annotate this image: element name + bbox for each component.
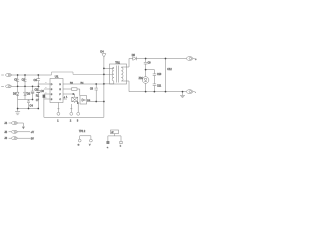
connector J3 output minus: [186, 90, 196, 94]
svg-text:S: S: [51, 89, 53, 91]
svg-text:C11: C11: [157, 86, 162, 88]
svg-text:F: F: [59, 94, 61, 96]
svg-text:S: S: [51, 94, 53, 96]
svg-text:1: 1: [66, 96, 68, 98]
diode D4 clamp: [100, 50, 106, 58]
node clamp dots: [103, 68, 105, 70]
wire primary ground rail: [18, 108, 39, 110]
node dc minus dots: [32, 99, 34, 101]
IC right pins: [63, 97, 67, 99]
svg-text:V: V: [89, 144, 91, 146]
ground arrow J4: [22, 127, 25, 130]
wire branch: [146, 69, 155, 71]
wire output plus rail: [129, 58, 186, 60]
svg-text:R1: R1: [36, 94, 40, 97]
resistor R2: [63, 82, 84, 95]
svg-text:D1: D1: [13, 92, 17, 96]
svg-text:C5: C5: [35, 88, 39, 92]
svg-text:+V: +V: [31, 131, 34, 134]
capacitor C12: [166, 59, 173, 92]
ground primary: [15, 109, 20, 115]
svg-text:+: +: [195, 58, 197, 61]
svg-text:D2: D2: [27, 92, 31, 96]
test point TP1 TP2: [78, 131, 93, 146]
svg-text:C4: C4: [30, 104, 34, 108]
zener ZD1 in circle: [139, 70, 149, 92]
svg-text:G: G: [78, 144, 80, 146]
IC left pins: [38, 83, 62, 102]
svg-text:U1: U1: [55, 75, 59, 79]
wire secondary bottom: [128, 81, 130, 92]
node output rail dots: [145, 58, 147, 60]
capacitor C9: [144, 59, 151, 70]
connector J6: [4, 137, 34, 141]
component X1 small box: [72, 97, 78, 102]
svg-text:b: b: [120, 146, 122, 148]
wire primary dc minus: [18, 99, 33, 101]
svg-text:C7: C7: [36, 99, 40, 102]
svg-text:B: B: [59, 84, 61, 86]
wire clamp vertical: [103, 58, 105, 117]
wire secondary top: [128, 59, 130, 68]
svg-text:TR1: TR1: [115, 61, 120, 64]
capacitor C3: [34, 75, 41, 86]
svg-text:C3: C3: [34, 78, 38, 82]
transformer TR1: [104, 61, 129, 84]
svg-text:D5: D5: [132, 54, 136, 57]
svg-text:J6: J6: [4, 137, 7, 140]
svg-text:1: 1: [57, 121, 59, 123]
svg-text:C: C: [59, 99, 61, 101]
diode D5 output rectifier: [132, 54, 137, 61]
junction dots: [17, 58, 184, 110]
svg-text:3: 3: [77, 121, 79, 123]
svg-text:a: a: [107, 147, 109, 149]
svg-text:J4: J4: [4, 122, 7, 125]
diode D3 in box: [80, 96, 91, 104]
svg-text:D4: D4: [100, 50, 104, 53]
op-amp U1 controller IC box: [50, 75, 63, 103]
capacitor C11: [153, 84, 162, 92]
svg-text:J5: J5: [4, 131, 7, 134]
svg-text:E: E: [59, 89, 61, 91]
svg-text:C6: C6: [41, 89, 45, 93]
node row2 dots: [17, 85, 19, 87]
svg-text:D: D: [51, 84, 53, 86]
jumper JP1: [107, 130, 123, 149]
capacitor C4: [27, 100, 33, 109]
wire snubber return: [87, 101, 104, 103]
connector J1 pin N (AC input bottom): [1, 85, 11, 88]
diode D2: [24, 86, 31, 99]
svg-text:-: -: [195, 91, 196, 94]
ground secondary: [180, 92, 185, 98]
capacitor C8: [90, 84, 98, 102]
svg-text:C12: C12: [167, 68, 172, 71]
svg-text:C8: C8: [90, 89, 94, 91]
node pad 1: [57, 103, 60, 123]
svg-text:C10: C10: [157, 74, 162, 76]
wire drain to transformer: [63, 83, 104, 85]
svg-text:C1: C1: [14, 78, 18, 82]
connector J5: [4, 130, 34, 134]
capacitor C2: [22, 75, 27, 86]
wire AC neutral rail: [12, 85, 41, 87]
svg-text:2: 2: [70, 121, 72, 123]
node pad 3: [77, 103, 80, 123]
connector J2 output plus: [186, 57, 197, 61]
wire AC line top rail: [12, 74, 52, 76]
node row1 dots: [17, 74, 19, 76]
svg-text:C9: C9: [148, 63, 152, 65]
capacitor C6 bulk electrolytic: [36, 86, 44, 108]
capacitor C1: [14, 75, 19, 86]
wire output minus rail: [129, 91, 186, 93]
svg-text:ZD1: ZD1: [139, 78, 144, 80]
wire pin3: [63, 94, 75, 98]
capacitor C10: [153, 70, 162, 84]
connector J4: [4, 122, 23, 127]
svg-text:S: S: [51, 99, 53, 101]
svg-text:0V: 0V: [31, 137, 34, 140]
connector J1 pin L (AC input top): [1, 74, 11, 77]
node pad 2: [70, 102, 75, 123]
diode D1: [13, 86, 19, 108]
wire ground rail 2: [44, 116, 104, 118]
resistor R1: [36, 94, 45, 117]
svg-text:C2: C2: [22, 78, 26, 82]
svg-text:TP1 2: TP1 2: [79, 131, 86, 133]
capacitor C5 electrolytic: [31, 86, 39, 99]
